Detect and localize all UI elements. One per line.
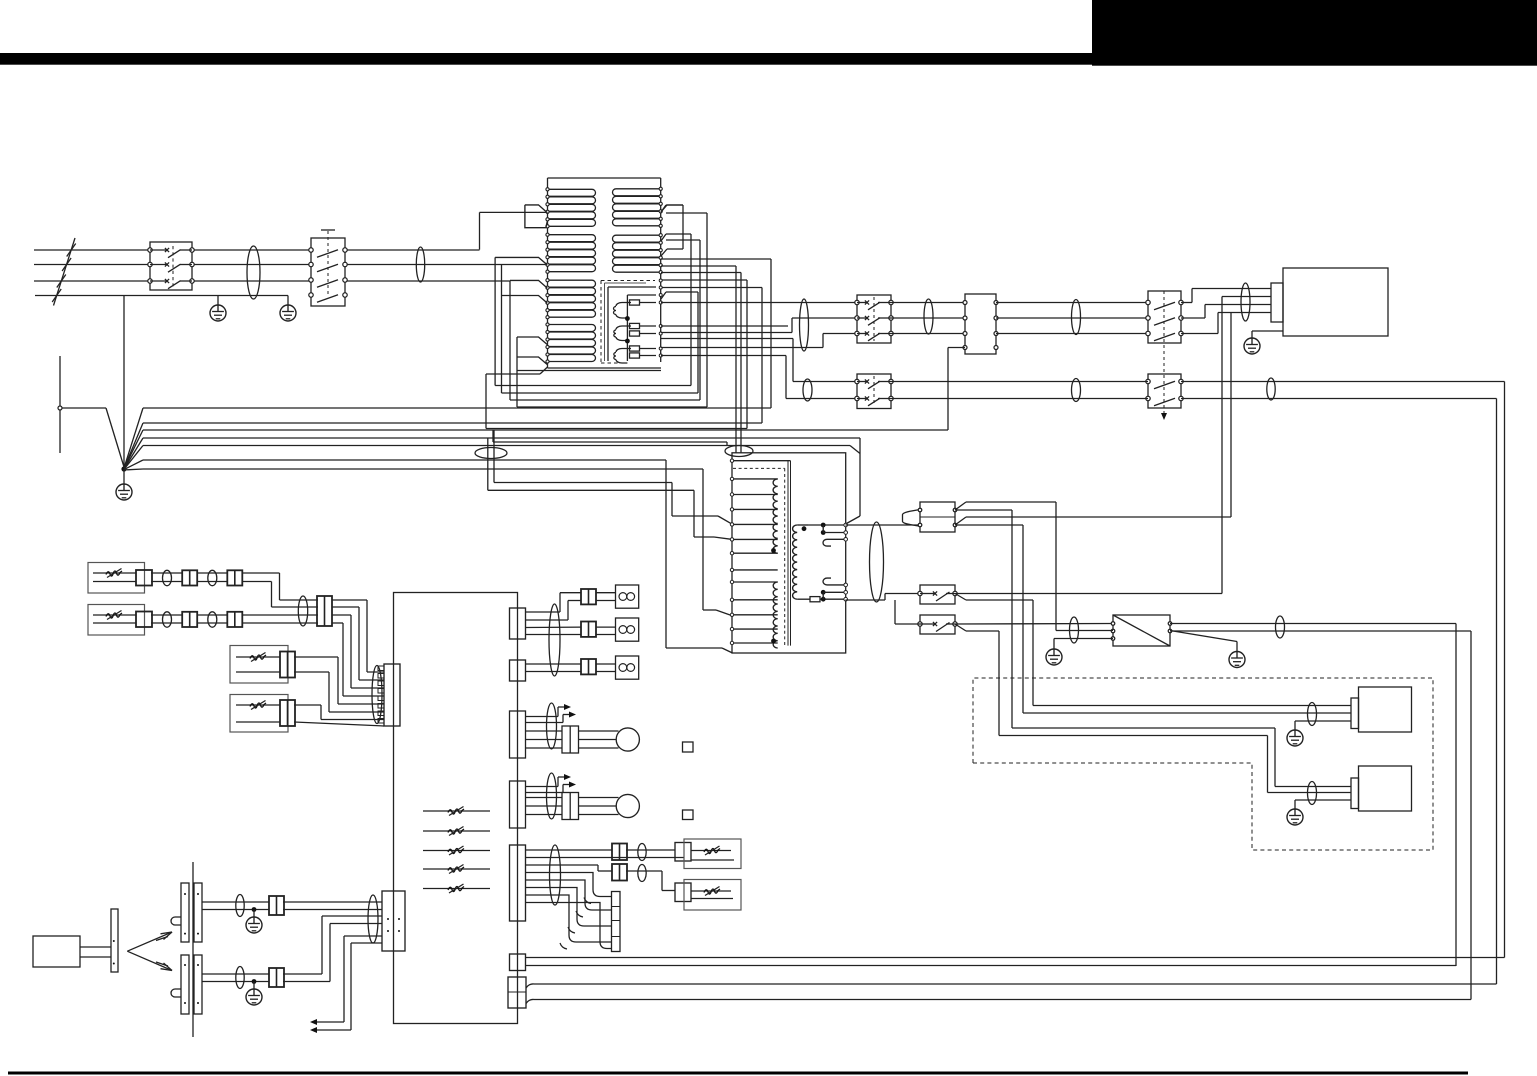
wire fan 6 (124, 460, 143, 470)
ground symbol E10 (253, 982, 255, 989)
connector HP1b (562, 726, 579, 753)
cable bundle FB10 (870, 522, 884, 602)
wire HP2 l3 (526, 814, 563, 816)
wire CN10 out 3 (996, 333, 1148, 335)
connector CN15 (269, 968, 284, 987)
cable bundle FB24 (549, 604, 560, 676)
wire P1 out1 diag (955, 502, 966, 510)
wire secondary bottom (797, 598, 810, 600)
wire outlet2 feed2 (999, 735, 1268, 737)
stub terminal left (59, 356, 61, 453)
wire out2 l1 (526, 864, 599, 866)
speaker jack SP3 (616, 656, 639, 679)
test point TP1 (683, 742, 694, 752)
node J7 (252, 907, 257, 912)
wire drop D1 (493, 430, 495, 483)
relay K8 box (920, 615, 955, 634)
node J5 (821, 590, 826, 595)
wire K4 out 1 (1181, 302, 1192, 304)
connector CN22 (581, 589, 596, 604)
relay K1 box (150, 242, 192, 290)
headphone jack HP2 (616, 794, 639, 817)
wire bundle out1 (332, 599, 367, 601)
relay K5 contact 1 (1146, 379, 1150, 383)
wire HP1 l3 (526, 747, 563, 749)
aux box IN3 (230, 646, 288, 684)
cable bundle FB9 (1241, 283, 1250, 321)
wire fan 7 (125, 468, 143, 471)
wire outlet2 feed1 (1012, 727, 1275, 729)
cable bundle FB5 (1072, 300, 1081, 335)
tuner box IN2 (88, 605, 145, 636)
relay K2 box (311, 238, 345, 306)
wire HP2 k1 (579, 797, 619, 799)
wire link out 2 (351, 942, 382, 944)
relay K2 contact 1 (309, 248, 313, 252)
ground symbol E9 (253, 910, 255, 917)
ground symbol E6 (1229, 652, 1245, 668)
connector HP2a (510, 781, 526, 828)
connector CN11 comb (384, 664, 400, 726)
cable bundle FB7 (1072, 379, 1081, 402)
wire CN10 out 1 (996, 302, 1148, 304)
wire AC line 3 (34, 280, 150, 282)
relay K4 contact 1 (1146, 300, 1150, 304)
cable bundle FB19 (298, 596, 307, 626)
connector CN21 (510, 660, 526, 681)
node J4 (821, 530, 826, 535)
headphone jack HP1 (616, 728, 639, 751)
wire band link (492, 430, 494, 442)
aux box IN4 (230, 695, 288, 733)
cable bundle HP2 (547, 773, 557, 819)
connector CN26 (612, 844, 627, 861)
cable bundle HP1 (547, 703, 557, 749)
connector CN12 plates (181, 883, 189, 942)
cable bundle FB3 (800, 299, 809, 351)
connector CN27 (675, 843, 691, 862)
wire stair2 (526, 880, 612, 910)
cable bundle FB12 (1276, 616, 1285, 638)
ferrite bead FB2 (416, 247, 424, 282)
wire HP1 l1 (526, 730, 563, 732)
connector CN7 (317, 596, 332, 626)
connector CN31 (510, 954, 526, 971)
wire tap 347 (661, 347, 823, 349)
junction block right pin loops (613, 189, 661, 196)
wire CN10 out 2 (996, 317, 1148, 319)
AC outlet 1 plug (1351, 698, 1359, 729)
node J8 (252, 979, 257, 984)
wire spk row3 out (597, 663, 616, 665)
relay K3 dashed link (873, 297, 875, 341)
cable flag C2 (495, 257, 547, 264)
relay K5 box (1148, 374, 1181, 408)
connector CN25 (510, 845, 526, 921)
wire long G2 (534, 999, 1471, 1001)
relay K4 box (1148, 291, 1181, 343)
wire tap 266 (661, 265, 736, 267)
wire K8 diag out (955, 624, 966, 631)
wire K7 long out (955, 593, 1222, 595)
connector CN20 (510, 608, 526, 639)
pilot winding W2 (616, 326, 631, 330)
wire spk row1 out (597, 592, 616, 594)
cable bundle FB21 (236, 895, 244, 917)
wire link out 1 (344, 935, 382, 937)
ferrite bead FB1 (247, 246, 260, 299)
fuse link F4 (630, 346, 640, 351)
wire AC hot riser (1222, 296, 1271, 298)
transformer T1 core (733, 467, 785, 469)
connector P1 pins (918, 508, 922, 512)
wire chain2 out (242, 614, 318, 616)
wire sec tap b (822, 592, 824, 599)
ground symbol E1 (217, 296, 219, 305)
cable flag C3 (510, 280, 547, 288)
node J1 (625, 316, 630, 321)
cable bundle FB22 (236, 967, 244, 989)
cable flag C1 (525, 205, 547, 213)
wire sec tap a (822, 525, 824, 533)
hook G1 (526, 984, 534, 988)
relay K3 box (857, 295, 891, 343)
wire chain3 out1 (294, 656, 338, 658)
cable flag C6 (517, 357, 547, 365)
fuse link F2 (630, 323, 640, 328)
connector CN5 (182, 612, 197, 627)
relay K2 dashed link (327, 231, 329, 297)
header black bar (0, 53, 1092, 65)
fork arrow up (127, 932, 172, 951)
transformer T1 primary taps (732, 478, 778, 480)
junction block left bus (547, 178, 549, 368)
connector CN6 (227, 612, 242, 627)
cable bundle FB27 (638, 865, 646, 882)
wire phono2 out2 (283, 981, 330, 983)
connector HP2b (562, 793, 579, 820)
out box OUT2 (684, 880, 741, 911)
wire spk row2 a (526, 626, 582, 628)
wire HP2 arrow2 (526, 792, 564, 794)
wire stair1 (526, 873, 612, 897)
wire long F2 (526, 965, 1457, 967)
cable bundle FB16 (208, 570, 217, 585)
wire K8 long out (955, 623, 1113, 626)
relay K3 contact 3 (855, 331, 859, 335)
relay K4 contact 3 (1146, 331, 1150, 335)
wire stair5 (526, 903, 612, 949)
wire AC line 2 (34, 264, 150, 266)
connector AC plug cap (1271, 283, 1283, 322)
connector CN4 (136, 612, 152, 628)
wire chain2b (197, 614, 228, 616)
bottom rule (8, 1072, 1468, 1075)
wire selector feed 2 (1056, 630, 1113, 632)
wire chain1 (151, 572, 183, 574)
node J6 (821, 597, 826, 602)
transformer T1 right pins (844, 523, 848, 527)
cable bundle FB17 (163, 612, 172, 627)
relay K2 contact 4 (309, 293, 313, 297)
wire HP1 k1 (579, 730, 619, 732)
transformer T1 secondary winding (793, 525, 798, 599)
wire phono1 (202, 901, 269, 903)
connector CN8 (280, 652, 295, 678)
hook G2 (526, 999, 534, 1003)
wire P1 out2 straight (955, 524, 1023, 526)
wire K6 out 1 (891, 381, 1148, 383)
cable bundle FB8 (1267, 378, 1275, 400)
header black title box (1092, 0, 1537, 66)
wire chain1 out1 (242, 572, 280, 574)
wire bundle out4 (332, 622, 343, 624)
wire HP1 k2 (579, 739, 617, 741)
wire outlet1 line2 (1023, 712, 1351, 714)
cable bundle FB20 (372, 666, 382, 724)
phono plate dots (113, 940, 115, 942)
AC outlet 1 box (1359, 687, 1412, 732)
wire K7 diag out (955, 594, 966, 601)
wire transformer wrap (859, 438, 861, 516)
junction block left pin loops (548, 189, 596, 196)
AC outlet 2 box (1359, 766, 1412, 811)
speaker jack SP1 (616, 585, 639, 608)
relay K7 contact (918, 591, 922, 595)
wire wrap W2 (501, 264, 503, 393)
wire stair4 (526, 895, 612, 942)
test point TP2 (683, 810, 694, 820)
connector CN10 pins y302 (963, 301, 967, 305)
junction block top cap (548, 177, 661, 179)
wire chain1 out2 (242, 581, 272, 583)
pilot section dashed border (601, 280, 655, 282)
wire spk row3 b (526, 671, 582, 673)
wire fan 1 (124, 408, 143, 468)
wire spk row3 a (526, 663, 582, 665)
cable bundle FB18 (208, 612, 217, 627)
wire spk row1 a (526, 611, 561, 613)
wire chain4 out1 (294, 704, 321, 706)
internal connector CN30 (612, 892, 621, 952)
connector CN28 (612, 864, 627, 881)
pilot winding W1 (616, 303, 631, 307)
wire out1 l1b (626, 849, 675, 851)
cable bundle FB14 (1308, 782, 1317, 805)
wire secondary top (808, 524, 846, 526)
chassis panel line (192, 862, 194, 1037)
wire chain3 out2 (294, 671, 329, 673)
wire HP1 k3 (579, 747, 619, 749)
relay K5 contact 2 (1146, 396, 1150, 400)
cable bundle FB4 (924, 299, 933, 334)
fuse link F6 (810, 597, 820, 602)
wire fan 5 (124, 446, 143, 470)
fork arrow down (127, 951, 172, 970)
relay K3 contact 2 (855, 316, 859, 320)
relay K4 contact 2 (1146, 316, 1150, 320)
cable bundle FB13 (1308, 703, 1317, 726)
wire tap 287 wrap (661, 287, 762, 289)
transformer T1 core entry (732, 460, 791, 462)
connector CN32 (508, 977, 526, 1008)
AC power cord box (1283, 268, 1388, 336)
wire K6 out 2 (891, 398, 1148, 400)
wire tap 302 (661, 302, 857, 304)
junction block bottom edge (548, 367, 662, 369)
wire bundle out3 (332, 614, 351, 616)
wire stair3 (526, 888, 612, 927)
wire tap 259 wrap (661, 258, 771, 260)
wire drop D3 (665, 460, 667, 648)
wire earth line (35, 295, 288, 297)
wire sec out bottom (846, 599, 886, 601)
connector CN1 (136, 570, 152, 586)
node J2 (625, 339, 630, 344)
voltage selector pins (1111, 622, 1115, 626)
wire phono1 out (283, 901, 382, 903)
stub pin 539 (823, 539, 846, 546)
relay K7 box (920, 585, 955, 604)
cable bundle FB26 (638, 844, 646, 861)
connector CN29 (675, 883, 691, 902)
wire fan 3 (124, 430, 143, 469)
pilot winding W3 (616, 349, 631, 353)
phono plug plate (111, 909, 118, 972)
connector CN10 box (965, 294, 996, 354)
wire earth drop (123, 296, 125, 469)
connector CN10 pins y333 (963, 332, 967, 336)
wire sec out top (846, 524, 921, 526)
cable bundle FB6 (803, 379, 812, 401)
relay K6 box (857, 374, 891, 409)
relay K1 dashed link (172, 246, 174, 288)
wire long F1 (526, 957, 1505, 959)
wire HP1 arrow1 (526, 716, 559, 718)
wire phono2 out1 (283, 973, 322, 975)
wire earth to CN10 (948, 347, 965, 349)
wire tap 332 (661, 332, 792, 334)
cable bundle FB15 (163, 570, 172, 585)
wire AC line 1 (34, 249, 150, 251)
wire primary tap riser (1230, 313, 1232, 518)
jumper lead J5 (423, 888, 490, 890)
wire drop D4 (702, 469, 704, 610)
connector HP1a (510, 711, 526, 758)
pin line 280 (659, 279, 662, 282)
wire K8 feed (895, 623, 920, 625)
relay K2 contact 3 (309, 278, 313, 282)
cable chevron R1 (661, 205, 666, 212)
relay K1 contact 3 (148, 279, 152, 283)
wire AC1 riser (479, 212, 481, 249)
connector CN23 (581, 622, 596, 637)
phono cable box (33, 936, 80, 967)
wire K3 out 2 (891, 317, 965, 319)
wire chain4 out2 (294, 722, 384, 726)
ground symbol E4 (1244, 338, 1260, 354)
wire spk row1 b (526, 619, 569, 621)
ground symbol E3 (123, 469, 125, 484)
transformer T1 primary winding 1 (773, 479, 778, 553)
junction block right bus (660, 178, 662, 362)
wire wrap W4 (516, 337, 518, 407)
connector CN13 plates (181, 955, 189, 1014)
connector P1 box (920, 502, 955, 532)
relay K8 contact (918, 622, 922, 626)
wire fan 4 (124, 438, 143, 469)
node J3 (821, 523, 826, 528)
connector CN10 pins y347 (963, 346, 967, 350)
stub pin 585 (823, 578, 846, 585)
ground symbol E2 (287, 296, 289, 305)
pilot core lines (604, 283, 606, 361)
cable chevron R2 (661, 234, 666, 241)
slash marks on AC lines (54, 238, 76, 306)
ground symbol E5 (1046, 649, 1062, 665)
cable flag C4 (502, 296, 548, 304)
wire outlet1 earth (1295, 720, 1351, 722)
AC outlet 2 plug (1351, 778, 1359, 809)
wire P1 out1 straight (955, 509, 1012, 511)
connector CN2 (182, 570, 197, 585)
relay K2 contact 2 (309, 262, 313, 266)
wire out1 l1 (526, 849, 613, 851)
connector CN9 (280, 700, 295, 726)
wire selector out 1 (1170, 623, 1456, 625)
ground symbol E8 (1287, 809, 1303, 825)
cable bundle FB25 (550, 845, 561, 905)
wire HP2 arrow1 (526, 786, 559, 788)
speaker jack SP2 (616, 618, 639, 641)
tuner box IN1 (88, 563, 145, 594)
pin line 287 (659, 286, 662, 289)
wire wrap W3 (509, 281, 511, 400)
relay K3 contact 1 (855, 300, 859, 304)
wire phono2 (202, 973, 269, 975)
cable tie TB2 (725, 446, 753, 457)
node star ground (121, 466, 126, 471)
jumper lead J1 (423, 810, 490, 812)
wire HP2 k2 (579, 805, 617, 807)
wire HP1 l2 (526, 739, 563, 741)
transformer T1 polarity dots (771, 548, 776, 553)
wire K4 out 2 (1181, 317, 1205, 319)
wire chain2 (151, 614, 183, 616)
jumper lead J3 (423, 850, 490, 852)
relay K6 contact 2 (855, 396, 859, 400)
fuse link F3 (630, 331, 640, 336)
wire K5 out 2 (1181, 398, 1497, 400)
relay K4 dashed link (1163, 291, 1165, 414)
connector CN14 (269, 896, 284, 915)
jumper lead J4 (423, 868, 490, 870)
wire spk row2 b (526, 634, 582, 636)
wire K3 out 3 (891, 333, 965, 335)
wire out1 l2 (526, 857, 685, 859)
relay K6 contact 1 (855, 379, 859, 383)
cable tie TB1 (475, 448, 507, 459)
connector CN3 (227, 570, 242, 585)
wire outlet2 earth (1295, 799, 1351, 801)
fuse link F5 (630, 353, 640, 358)
connector CN16 comb (382, 891, 405, 951)
voltage selector box (1113, 615, 1170, 646)
main board box (394, 593, 518, 1024)
wire tap 280 wrap (661, 279, 747, 281)
connector P1 cable tail (903, 510, 921, 527)
fuse link F1 (630, 300, 640, 305)
